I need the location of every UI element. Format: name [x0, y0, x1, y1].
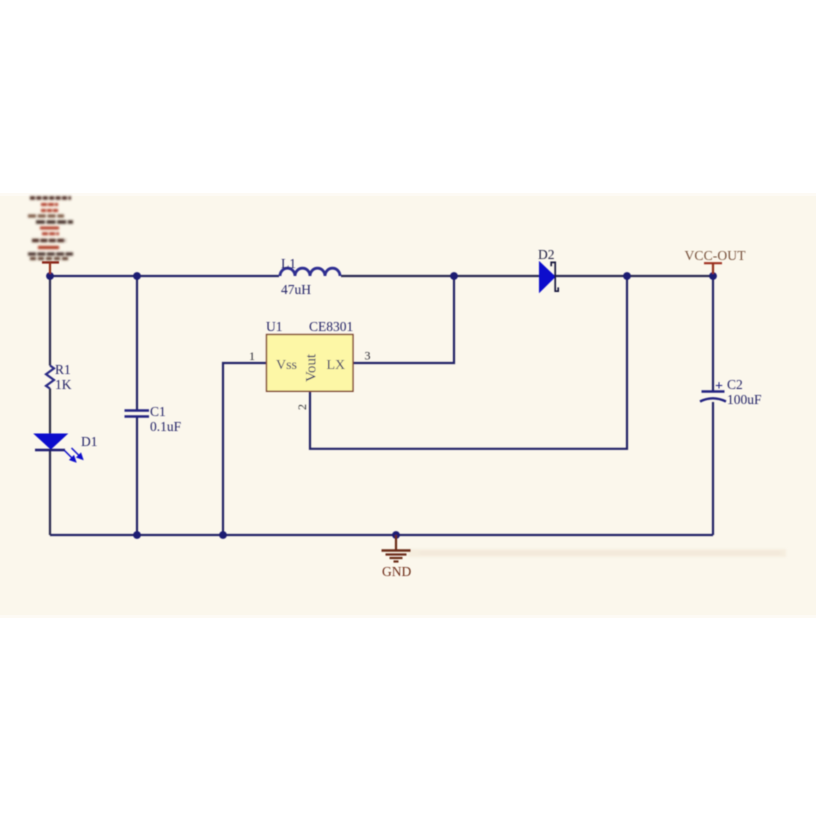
capacitor C2 (polarized): [700, 377, 762, 407]
svg-text:1: 1: [249, 349, 255, 363]
svg-text:D1: D1: [81, 434, 98, 449]
wire: pin2 Vout loop to output node: [310, 276, 627, 449]
faint tan stripe bottom right: [408, 549, 786, 557]
node B C1 top: [133, 272, 141, 280]
wire: pin3 to top bus (LX node): [353, 276, 454, 363]
svg-text:VCC-OUT: VCC-OUT: [685, 248, 747, 263]
node F C1 bottom: [133, 531, 141, 539]
svg-text:3: 3: [365, 349, 371, 363]
cream schematic background band: [0, 195, 816, 617]
wire: [49, 389, 51, 435]
svg-text:Vout: Vout: [304, 353, 320, 382]
node G Vss leg: [219, 531, 227, 539]
svg-text:1K: 1K: [55, 377, 72, 392]
power port solar bar: [42, 261, 59, 263]
power port VCC-OUT: [685, 248, 747, 274]
solar panel input label (blurred red): [28, 198, 73, 259]
IC U1 CE8301: [249, 319, 371, 410]
power bar: [704, 262, 722, 264]
wire: [49, 450, 51, 535]
node C LX junction: [450, 272, 458, 280]
wire: pin1 branch x=223 up from ground bus then right to U1: [223, 363, 266, 535]
svg-text:CE8301: CE8301: [309, 319, 353, 334]
wire: [712, 402, 714, 535]
svg-text:C2: C2: [727, 377, 743, 392]
svg-text:100uF: 100uF: [727, 392, 762, 407]
svg-text:47uH: 47uH: [281, 282, 311, 297]
wire: [341, 275, 713, 277]
node E VCC-OUT: [709, 272, 717, 280]
node D Vout feedback: [623, 272, 631, 280]
svg-text:2: 2: [295, 404, 309, 410]
svg-text:D2: D2: [538, 247, 555, 262]
wire: bottom ground bus y=535: [50, 534, 713, 536]
wire: C1 branch vertical x=137: [136, 276, 138, 410]
svg-text:L1: L1: [281, 256, 296, 271]
LED D1: [35, 434, 98, 462]
svg-text:GND: GND: [382, 564, 411, 579]
node A solar input: [46, 272, 54, 280]
wire: C2 branch x=713: [712, 276, 714, 391]
node H ground tap: [392, 531, 400, 539]
svg-text:Vss: Vss: [276, 358, 297, 373]
wire: [136, 417, 138, 535]
svg-text:LX: LX: [327, 358, 346, 373]
wire: left vertical through R1 and D1 (x=50): [49, 276, 51, 366]
resistor R1: [46, 366, 54, 389]
svg-text:0.1uF: 0.1uF: [150, 419, 182, 434]
svg-text:R1: R1: [55, 362, 71, 377]
ground GND: [382, 535, 412, 579]
capacitor C1: [125, 404, 182, 434]
inductor L1: [280, 268, 340, 276]
svg-text:C1: C1: [150, 404, 166, 419]
svg-text:U1: U1: [266, 319, 283, 334]
diode D2 (schottky): [538, 247, 558, 292]
wire: top horizontal bus y=276 from solar node to VCC-OUT node: [50, 275, 279, 277]
